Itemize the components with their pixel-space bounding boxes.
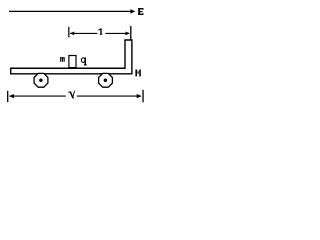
label E bbox=[138, 8, 143, 15]
dimension l right extension bar bbox=[130, 26, 132, 39]
label M bbox=[135, 70, 140, 77]
block m q bbox=[69, 56, 76, 68]
dimension v line right segment bbox=[77, 95, 141, 97]
dimension l right arrowhead bbox=[126, 32, 130, 36]
dimension l left arrowhead bbox=[70, 32, 74, 36]
label m bbox=[60, 57, 65, 62]
dimension l line right segment bbox=[105, 32, 129, 34]
background bbox=[0, 0, 156, 104]
dimension v left arrowhead bbox=[9, 94, 14, 98]
label l bbox=[98, 28, 102, 34]
dimension v right arrowhead bbox=[137, 94, 142, 98]
dimension l left extension bar bbox=[68, 27, 70, 38]
wheel 2 bbox=[99, 73, 113, 87]
dimension v left extension bar bbox=[7, 91, 9, 102]
field arrow E line bbox=[9, 10, 131, 12]
cart M body (platform with right wall, L-shape) bbox=[11, 40, 132, 74]
wheel 1 bbox=[34, 73, 48, 87]
dimension v right extension bar bbox=[142, 90, 144, 103]
label q bbox=[81, 57, 86, 65]
field arrow E head bbox=[130, 9, 135, 13]
dimension v line left segment bbox=[10, 95, 66, 97]
dimension l line left segment bbox=[70, 32, 97, 34]
label v bbox=[69, 91, 75, 98]
